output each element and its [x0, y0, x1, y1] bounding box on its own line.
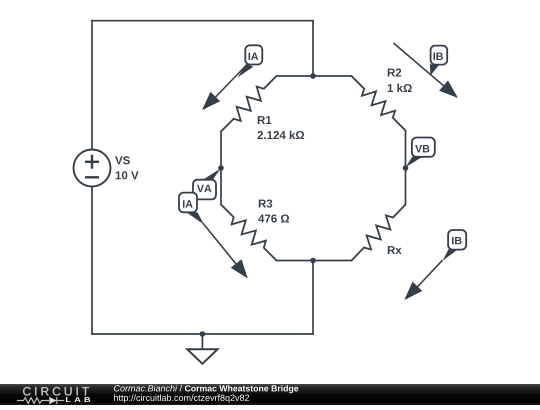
R3 value 476 Ohm — [258, 214, 289, 222]
current probe IA (top) tail wedge — [238, 64, 254, 78]
current probe IB (top right) label box — [431, 46, 448, 65]
R2 label — [388, 68, 401, 76]
CircuitLab logo CIRCUIT text — [23, 387, 89, 395]
wire bridge bottom horizontal — [277, 260, 352, 262]
wire node B down to Rx — [405, 168, 407, 205]
voltage source VS circle — [74, 150, 111, 187]
node A dot (VA node) — [218, 165, 224, 171]
voltage probe VA label box — [193, 180, 216, 200]
wire top rail horizontal — [92, 20, 313, 22]
R3 label — [259, 199, 273, 207]
wire from bridge bottom node down to bottom rail — [312, 261, 314, 335]
VS plus sign — [85, 155, 99, 169]
R2 value 1 kOhm — [388, 84, 412, 92]
VS value 10 V — [116, 171, 139, 179]
resistor R1 — [221, 76, 277, 132]
resistor R2 — [352, 76, 406, 131]
wire R2 to node B — [405, 131, 407, 169]
R1 value 2.124 kOhm — [257, 131, 304, 139]
ground symbol triangle — [187, 349, 217, 364]
current probe IB (top right) arrowhead — [439, 81, 458, 99]
current probe IB (top right) tail wedge — [430, 64, 439, 75]
ground stub wire — [201, 334, 203, 349]
current probe IB (bottom right) arrowhead — [404, 282, 422, 300]
bridge bottom node dot — [310, 258, 316, 264]
wire R1 to node A — [220, 132, 222, 169]
current probe IA (left) tail wedge — [187, 212, 205, 224]
current probe IB (top right) arrow line — [394, 43, 457, 96]
voltage probe VB tail wedge — [406, 157, 423, 168]
current probe IA (left) label box — [179, 193, 197, 213]
VS label — [115, 156, 130, 164]
ground junction dot — [200, 331, 206, 337]
wire from top rail down to bridge top node — [312, 21, 314, 76]
voltage probe VB label box — [412, 138, 435, 157]
Rx label — [388, 246, 402, 254]
current probe IA (left) arrowhead — [231, 259, 248, 278]
node B dot (VB node) — [403, 165, 409, 171]
current probe IB (bottom right) tail wedge — [443, 249, 459, 260]
current probe IB (bottom right) arrow line — [407, 260, 443, 298]
current probe IA (top) arrow line — [204, 66, 246, 110]
logo LAB text — [66, 397, 90, 402]
voltage probe VA tail wedge — [203, 168, 221, 180]
wire node A down to R3 — [220, 168, 222, 205]
VS minus sign — [85, 176, 99, 178]
current probe IB (bottom right) label box — [448, 230, 466, 250]
current probe IA (top) label box — [245, 45, 262, 64]
wire from VS bottom down — [91, 187, 93, 335]
resistor Rx — [352, 205, 406, 261]
wire from VS top to top-left corner — [91, 21, 93, 150]
current probe IA (top) arrowhead — [202, 92, 220, 110]
logo resistor-diode icon — [17, 398, 49, 404]
R1 label — [258, 116, 272, 124]
wire bridge top horizontal — [277, 75, 352, 77]
footer author / title — [114, 385, 177, 392]
footer bar — [0, 384, 540, 405]
footer url — [114, 394, 249, 402]
bridge top node dot — [310, 73, 316, 79]
wire bottom rail horizontal — [92, 333, 313, 335]
resistor R3 — [221, 205, 277, 261]
current probe IA (left) arrow line — [203, 223, 246, 276]
